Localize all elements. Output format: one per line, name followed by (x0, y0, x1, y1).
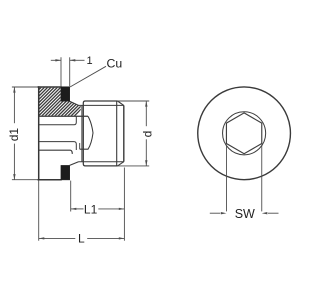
dim SW arrow right (262, 212, 268, 214)
body right face (123, 105, 125, 161)
svg-text:SW: SW (235, 207, 255, 221)
dim SW line right (268, 212, 279, 214)
socket wall bottom (39, 150, 72, 154)
groove chamfer top (70, 101, 79, 105)
dim L1 line (71, 208, 84, 210)
dim SW extension left (225, 145, 227, 212)
dim L1/L extension right (123, 168, 125, 241)
flange bottom edge (38, 179, 61, 181)
end chamfer bottom (118, 162, 124, 166)
dim SW line left (210, 212, 221, 214)
socket bore bottom (39, 142, 76, 150)
svg-text:1: 1 (87, 55, 93, 67)
svg-text:d: d (140, 131, 154, 138)
dim 1 arrow right (70, 59, 76, 61)
socket bore top (39, 116, 76, 124)
dim d1 extension bottom (12, 179, 38, 181)
flange outline (38, 87, 61, 180)
svg-text:d1: d1 (7, 128, 21, 142)
socket cone petal (80, 116, 93, 149)
dim L arrow left (39, 237, 45, 239)
flange left edge (38, 87, 40, 180)
end chamfer top (118, 101, 124, 105)
dim d arrow top (145, 101, 147, 107)
outer circle d1 (198, 87, 291, 180)
svg-text:L1: L1 (84, 202, 98, 216)
dim d extension top (118, 100, 150, 102)
dim L1 arrow left (71, 208, 77, 210)
dim L extension left (38, 180, 40, 240)
dim d1 extension top (12, 86, 38, 88)
dim SW extension right (261, 145, 263, 212)
hatched flange section (39, 88, 81, 116)
Cu seal ring top (black) (61, 87, 70, 102)
dim L1 arrow right (119, 208, 125, 210)
groove chamfer bottom (70, 162, 79, 166)
dim SW arrow left (221, 212, 227, 214)
dim d arrow bottom (145, 160, 147, 166)
dim L arrow right (119, 237, 125, 239)
dim 1 extension lines (60, 57, 62, 86)
socket wall top (39, 115, 88, 117)
Cu seal ring bottom (black) (61, 165, 70, 180)
socket flare stub (79, 143, 81, 149)
dim 1 line right (70, 59, 85, 61)
hex socket (226, 113, 261, 154)
thread start vertical and crest lines (83, 101, 117, 166)
dim L1 extension left (70, 181, 72, 212)
Cu leader line (70, 66, 106, 87)
svg-text:Cu: Cu (107, 56, 123, 70)
chamfer circle line (116, 101, 118, 166)
dim d1 line (13, 87, 15, 123)
dim d extension bottom (118, 165, 150, 167)
flange top edge (38, 86, 61, 88)
dim d1 arrow bottom (13, 174, 15, 180)
thread root line top (79, 104, 124, 106)
groove wall vertical (81, 105, 83, 161)
socket chamfer circle (223, 112, 266, 155)
dim d1 arrow top (13, 87, 15, 93)
dim L line (39, 237, 76, 239)
dim 1 arrow left (55, 59, 61, 61)
svg-text:L: L (78, 232, 85, 246)
dim 1 line left (51, 59, 61, 61)
thread root line bottom (79, 161, 124, 163)
dim d line (145, 101, 147, 126)
